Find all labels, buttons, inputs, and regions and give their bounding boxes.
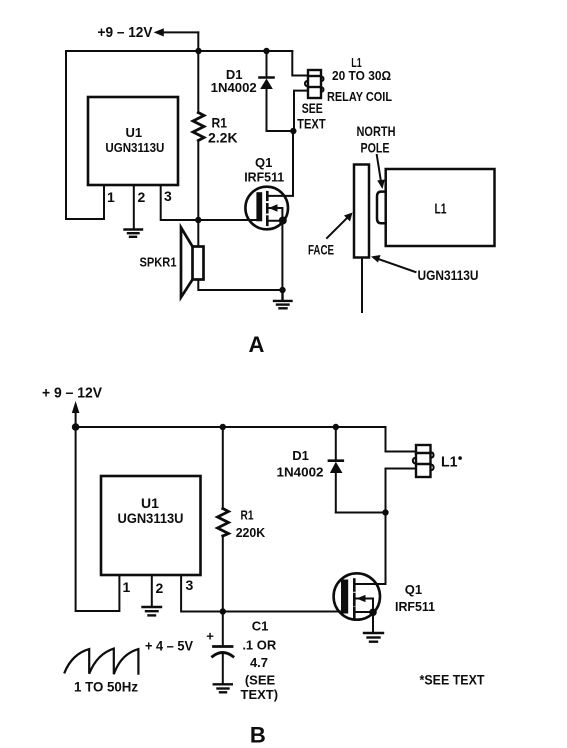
MOSFET Q1 IRF511 (B) [334, 573, 435, 632]
wire: drain node down to MOSFET (B) [385, 513, 387, 585]
ground: MOSFET source (A) [274, 290, 292, 308]
node: rail/R1 junction (B) [220, 424, 226, 430]
svg-text:R1: R1 [212, 114, 228, 130]
svg-text:UGN3113U: UGN3113U [418, 267, 479, 283]
svg-text:220K: 220K [236, 525, 266, 540]
svg-text:+: + [206, 629, 214, 644]
svg-text:2.2K: 2.2K [208, 129, 238, 145]
relay coil L1 (A) [305, 70, 323, 98]
node: D1/coil/drain junction (A) [290, 128, 296, 134]
wire: left rail down to pin 1 (B) [76, 427, 120, 611]
diode D1 1N4002 (A) [211, 51, 274, 131]
node: rail/R1 junction (A) [195, 48, 201, 54]
wire: rail corner down to relay coil (A) [292, 51, 308, 76]
capacitor C1 (B) [206, 612, 233, 684]
channel drain tick [353, 580, 356, 591]
wire: D1 anode to coil-bottom wire (A) [267, 130, 294, 132]
coil L1* (B) [413, 445, 434, 477]
svg-text:NORTH: NORTH [357, 123, 396, 139]
svg-text:1 TO 50Hz: 1 TO 50Hz [74, 679, 138, 695]
arrow up from rail (B) [72, 401, 80, 427]
magnet L1 box (A) [386, 169, 495, 246]
magnet north pole bump (A) [377, 192, 386, 224]
svg-text:2: 2 [138, 189, 146, 205]
body arrow [267, 208, 282, 221]
svg-text:L1: L1 [441, 454, 458, 471]
channel body tick [266, 204, 269, 212]
svg-text:U1: U1 [141, 495, 159, 511]
drain lead inside [354, 583, 385, 585]
channel drain tick [266, 192, 269, 200]
body arrow [354, 599, 373, 613]
wire: speaker bottom to source node (A) [198, 280, 282, 290]
MOSFET Q1 IRF511 (A) [244, 131, 293, 290]
svg-text:2: 2 [156, 580, 164, 596]
node: D1/coil/drain junction (B) [382, 509, 388, 515]
resistor R1 220K (B) [218, 427, 266, 612]
arrow to +9-12V supply (A) [154, 28, 199, 51]
sawtooth waveform (B) [65, 649, 139, 675]
label L1* (B) [441, 454, 462, 471]
svg-text:+9 – 12V: +9 – 12V [98, 24, 153, 41]
wire: left rail down to pin 1 (A) [66, 51, 104, 219]
wire: top power rail (B) [76, 426, 386, 428]
channel body tick [353, 594, 356, 605]
svg-text:TEXT): TEXT) [241, 687, 279, 702]
svg-text:3: 3 [164, 188, 172, 204]
svg-text:Q1: Q1 [255, 155, 272, 170]
label NORTH POLE (A) [357, 123, 396, 155]
svg-text:B: B [250, 722, 266, 747]
svg-text:C1: C1 [252, 619, 269, 634]
wire: rail corner down to coil (B) [386, 427, 417, 452]
channel source tick [353, 608, 356, 619]
svg-text:A: A [248, 332, 264, 357]
magnet face plate (A) [354, 165, 369, 258]
channel source tick [266, 217, 269, 225]
node: R1 / gate wire junction (A) [195, 217, 201, 223]
svg-text:1N4002: 1N4002 [211, 80, 257, 95]
drain lead inside [267, 131, 293, 196]
svg-text:IRF511: IRF511 [395, 599, 435, 614]
wire: line below face plate (A) [361, 258, 363, 313]
node: rail/D1 junction (B) [333, 424, 339, 430]
resistor R1 2.2K (A) [193, 51, 238, 220]
svg-text:3: 3 [186, 577, 194, 593]
svg-text:SPKR1: SPKR1 [140, 255, 177, 270]
arrow: FACE to plate (A) [327, 213, 353, 239]
gate bar [256, 192, 262, 221]
svg-text:UGN3113U: UGN3113U [118, 510, 184, 526]
svg-text:*SEE TEXT: *SEE TEXT [420, 671, 485, 687]
label C1 value (B) [241, 619, 279, 703]
svg-text:1: 1 [123, 579, 131, 595]
svg-text:(SEE: (SEE [245, 672, 276, 687]
source lead [267, 221, 282, 290]
svg-text:R1: R1 [241, 508, 254, 523]
speaker SPKR1 (A) [140, 220, 204, 297]
wire: coil bottom to drain node (B) [386, 469, 417, 513]
svg-text:1N4002: 1N4002 [277, 465, 324, 480]
svg-text:20 TO 30Ω: 20 TO 30Ω [332, 68, 391, 83]
wire: top power rail (A) [66, 50, 292, 52]
source lead [354, 612, 373, 632]
arrow: north pole to bump (A) [377, 155, 385, 189]
node: source/ground junction (A) [279, 287, 285, 293]
svg-text:+ 4 – 5V: + 4 – 5V [145, 638, 194, 654]
wire: D1 anode to drain rail (B) [336, 512, 386, 514]
node: rail/D1 junction (A) [263, 48, 269, 54]
ground: C1 (B) [214, 684, 232, 692]
svg-text:4.7: 4.7 [250, 655, 268, 670]
svg-text:SEE: SEE [302, 100, 323, 116]
node: R1/C1/gate junction (B) [220, 608, 226, 614]
svg-text:U1: U1 [125, 125, 142, 140]
svg-text:Q1: Q1 [405, 582, 422, 597]
svg-text:TEXT: TEXT [297, 116, 326, 132]
svg-text:FACE: FACE [308, 242, 334, 258]
svg-text:+ 9 – 12V: + 9 – 12V [42, 385, 102, 402]
IC U1 UGN3113U (B) [101, 476, 201, 575]
svg-text:1: 1 [107, 189, 115, 205]
arrow: UGN3113U to face plate (A) [371, 255, 416, 272]
ground: U1 pin 2 (B) [143, 607, 162, 615]
ground: U1 pin 2 (A) [125, 230, 143, 237]
svg-text:D1: D1 [292, 448, 309, 463]
ground: MOSFET source (B) [364, 633, 383, 642]
gate bar [341, 580, 348, 614]
IC U1 UGN3113U (A) [88, 97, 178, 185]
pin 3 (B) [181, 575, 341, 612]
svg-text:RELAY COIL: RELAY COIL [327, 89, 392, 104]
diode D1 1N4002 (B) [277, 427, 343, 513]
pin 3 (A) [161, 185, 256, 220]
svg-text:IRF511: IRF511 [244, 170, 284, 185]
svg-text:L1: L1 [435, 201, 447, 218]
svg-text:POLE: POLE [361, 139, 390, 155]
label L1 relay coil (A) [297, 55, 392, 132]
wire: coil bottom back to drain rail (A) [294, 91, 308, 131]
pin 2 (B) [152, 575, 164, 606]
svg-text:.1 OR: .1 OR [242, 638, 277, 653]
svg-text:UGN3113U: UGN3113U [105, 140, 164, 155]
pin 2 (A) [134, 185, 146, 229]
node: rail/left junction (B) [72, 423, 80, 431]
